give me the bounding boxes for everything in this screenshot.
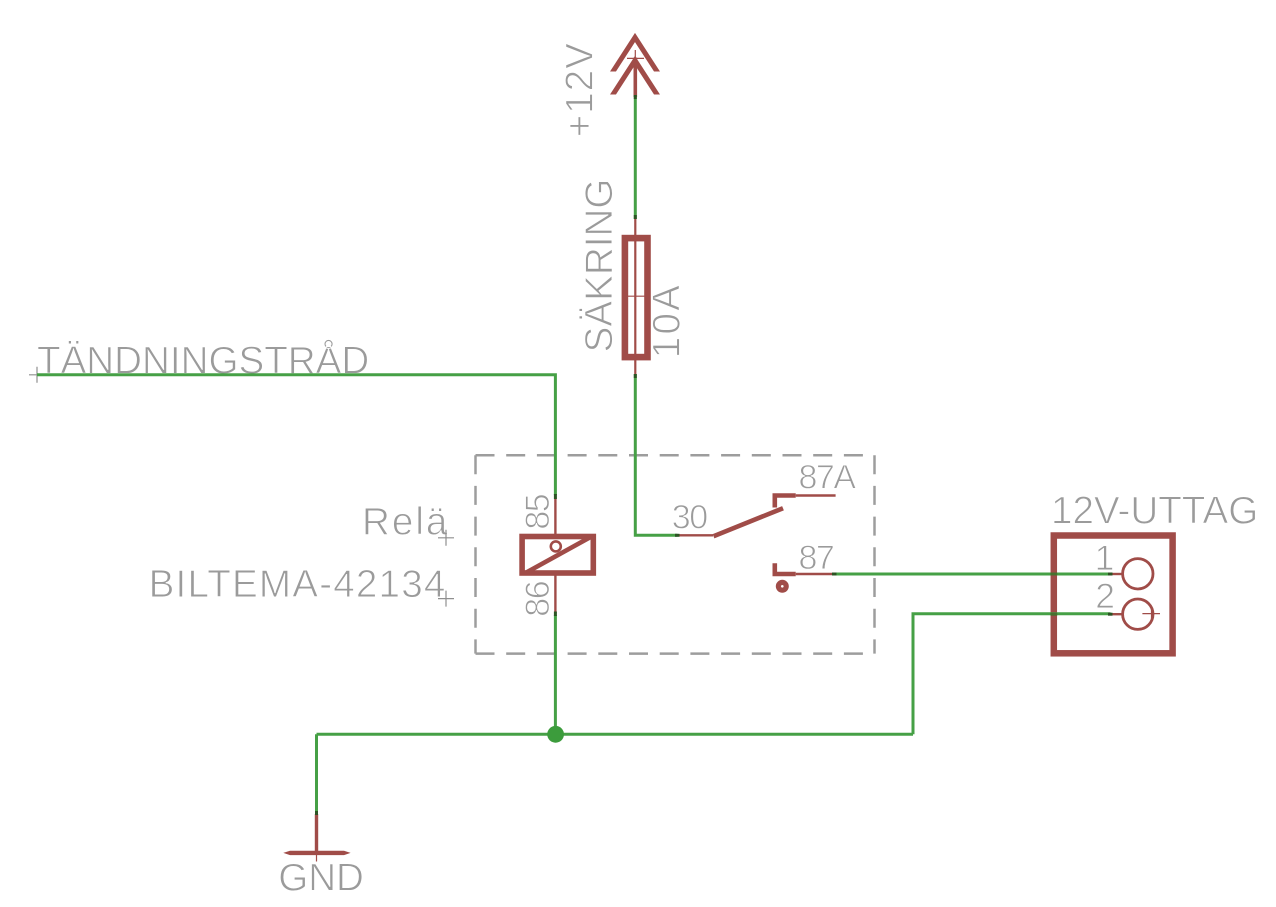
ground symbol (315, 814, 318, 853)
svg-text:2: 2 (1095, 576, 1115, 616)
svg-text:30: 30 (672, 499, 707, 537)
svg-text:BILTEMA-42134: BILTEMA-42134 (149, 563, 447, 606)
wire/wall crossing blends (1051, 574, 1058, 614)
wire TÄNDNINGSTRÅD net to relay pin 85 (37, 375, 555, 495)
svg-text:85: 85 (519, 494, 557, 529)
contact 87 dot (778, 582, 786, 590)
wire drop to GND (315, 734, 318, 813)
svg-text:87: 87 (799, 539, 834, 577)
connector X1 12V-UTTAG body (1054, 536, 1173, 654)
pin 87A lead (796, 494, 836, 496)
wire relay pin 87 to connector pin 1 (834, 573, 1111, 576)
pin 30 (677, 534, 714, 536)
contact 87A hook (775, 496, 796, 508)
wire fuse to relay pin 30 (635, 374, 677, 535)
pin/wire junction overlaps (dark green) (317, 95, 1113, 815)
node TÄNDNINGSTRÅD open wire end cross (29, 367, 45, 383)
fuse F1 body (625, 219, 648, 374)
svg-text:87A: 87A (799, 459, 857, 497)
pin 86 (554, 574, 556, 613)
svg-text:10A: 10A (646, 283, 689, 358)
svg-text:86: 86 (519, 581, 557, 616)
switch blade (714, 508, 784, 536)
wire riser to connector pin 2 (913, 614, 1111, 735)
svg-text:GND: GND (278, 857, 364, 900)
wire relay pin 86 down to junction (554, 615, 557, 734)
svg-text:1: 1 (1095, 538, 1115, 578)
wire junction row (317, 733, 914, 736)
svg-text:Relä: Relä (362, 501, 449, 544)
relay K1 dashed outline (476, 455, 875, 653)
pin 85 (554, 497, 556, 537)
svg-text:+12V: +12V (559, 42, 602, 137)
node Relä origin cross (438, 530, 454, 546)
contact 87 hook (775, 563, 796, 574)
pin 87 lead (796, 573, 834, 575)
relay coil (522, 537, 593, 574)
node BILTEMA origin cross (438, 591, 454, 607)
svg-text:SÄKRING: SÄKRING (578, 179, 621, 353)
power symbol +12V (double chevron) (612, 38, 659, 98)
junction dot (547, 726, 564, 743)
wire +12V to fuse (634, 95, 637, 219)
svg-text:12V-UTTAG: 12V-UTTAG (1051, 489, 1258, 532)
